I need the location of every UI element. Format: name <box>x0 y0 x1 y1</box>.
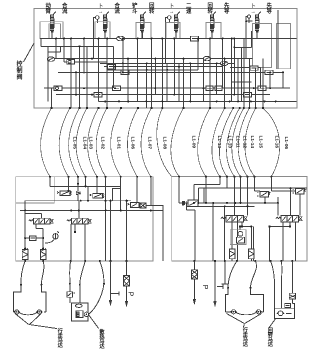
wire riser x222.5 y38.5 <box>222 39 224 89</box>
wire pump curve <box>45 240 54 244</box>
V1 inner box <box>49 24 61 39</box>
junction x194 y202.9 <box>193 202 195 204</box>
hose L1-01 <box>88 108 99 177</box>
svg-text:L1-03: L1-03 <box>87 137 93 150</box>
svg-text:L1-16: L1-16 <box>274 136 280 149</box>
junction x203.5 y88.2 <box>203 87 205 89</box>
directional valve DV1 <box>29 218 54 224</box>
wire jog y187.8 <box>204 187 227 189</box>
svg-text:导: 导 <box>224 7 230 15</box>
hose to right block corner <box>157 108 172 177</box>
wire riser x120.7 <box>120 177 122 211</box>
junction x206 y176.6 <box>205 176 207 178</box>
wire riser x241.3 y47.3 <box>240 47 242 101</box>
junction x84 y38.5 <box>83 38 85 40</box>
orifice E15 <box>94 92 102 96</box>
dots on right block top edge <box>178 176 272 178</box>
junction x271.4 y176.6 <box>270 176 272 178</box>
hose to fan circle C <box>100 261 104 284</box>
wire riser x206 <box>205 177 207 203</box>
svg-text:L1-11: L1-11 <box>234 136 240 149</box>
wire jog y184.4 <box>194 183 220 185</box>
bus y200.7 <box>25 200 131 202</box>
junction x162.4 y108 <box>161 107 163 109</box>
junction x290.6 y188.2 <box>290 187 292 189</box>
junction x275.6 y101.4 <box>275 100 277 102</box>
hose to swing motor A <box>271 261 275 308</box>
junction x126.5 y261 <box>125 260 127 262</box>
junction x92 y94.6 <box>91 94 93 96</box>
junction x84 y88.2 <box>83 87 85 89</box>
junction x107 y108 <box>106 107 108 109</box>
hose L1-14 <box>232 108 244 177</box>
svg-text:导: 导 <box>267 7 273 15</box>
shuttle check PB <box>76 192 80 195</box>
bus y210.4 <box>20 209 163 211</box>
junction x85.2 y261 <box>84 260 86 262</box>
leader to swing motor label <box>269 319 275 328</box>
bus y101.4 <box>99 100 297 102</box>
junction x247.5 y206.3 <box>246 205 248 207</box>
wire riser x179 y63.4 <box>178 63 180 101</box>
label 控制阀 <box>17 60 23 81</box>
hose to left travel motor A <box>21 261 25 285</box>
junction x260.8 y311.8 <box>260 311 262 313</box>
wire riser x231.7 y38.5 <box>231 39 233 102</box>
junction x25.1 y238.1 <box>24 237 26 239</box>
wire riser x255.7 y67.4 <box>255 67 257 108</box>
bus y66.6 <box>104 66 223 68</box>
wire riser x220 <box>219 177 221 185</box>
bus y58.6 <box>48 58 253 60</box>
wire riser x151.5 y38.5 <box>151 39 153 109</box>
right inner box <box>277 24 291 69</box>
junction x263 y108 <box>262 107 264 109</box>
cartridge check CC1 <box>22 249 28 262</box>
junction x110.5 y261 <box>109 260 111 262</box>
junction x128 y58.6 <box>127 58 129 60</box>
junction x146.6 y63.4 <box>146 62 148 64</box>
hose junction dots <box>20 284 42 286</box>
junction x247.5 y176.6 <box>246 176 248 178</box>
junction x68.5 y176.8 <box>67 176 69 178</box>
junction x233.6 y311.8 <box>232 310 236 314</box>
V5 sub-box <box>206 23 221 39</box>
vent circle for V6 <box>247 15 250 18</box>
left travel motor <box>14 285 46 325</box>
swing motor <box>275 308 295 318</box>
junction x107.1 y38.5 <box>106 38 108 40</box>
V3 sub-box <box>136 23 151 39</box>
junction x194.4 y261 <box>193 260 195 262</box>
junction x243.8 y108 <box>243 107 245 109</box>
leader to fan motor label <box>89 315 99 329</box>
label 回转马达 <box>268 326 274 348</box>
junction x190.4 y101.4 <box>189 100 191 102</box>
wire riser x251.3 y31 <box>250 31 252 47</box>
junction x249.4 y108 <box>248 107 250 109</box>
wire riser x213.2 <box>212 203 214 261</box>
relief valve E6 <box>220 61 228 65</box>
junction x155.3 y58.6 <box>154 58 156 60</box>
junction x222.5 y38.5 <box>222 38 224 40</box>
junction x240 y226.5 <box>239 225 241 227</box>
right block internal wires <box>179 177 307 261</box>
wire riser x278.2 y10 <box>277 10 279 69</box>
directional valve DV3 <box>221 216 248 222</box>
junction x264.5 y101.4 <box>263 100 265 102</box>
junction x39.4 y311.9 <box>39 311 40 312</box>
wire riser x43.2 <box>42 229 44 250</box>
bus y72.4 <box>58 71 283 73</box>
orifice E13b <box>215 86 222 90</box>
svg-text:L1-02: L1-02 <box>100 137 106 150</box>
wire riser x183.5 y58.6 <box>183 59 185 108</box>
junction x224.7 y58.6 <box>224 58 226 60</box>
bus y94.6 <box>56 94 270 96</box>
junction x78.8 y210.4 <box>78 209 80 211</box>
solenoid valve V2 <box>103 11 109 38</box>
junction x255.4 y261 <box>254 260 256 262</box>
dots on left block bottom edge <box>24 260 127 262</box>
wire riser x128 y58.6 <box>127 59 129 102</box>
wire DV4 drops <box>282 222 284 261</box>
junction x105.3 y101.4 <box>104 100 106 102</box>
junction x97 y176.8 <box>96 176 98 178</box>
fan circle hose <box>89 284 104 315</box>
junction x71.2 y210.4 <box>70 209 72 211</box>
junction x41.4 y311.9 <box>40 311 42 313</box>
wire DV3 drops <box>231 222 233 249</box>
svg-text:转: 转 <box>149 7 155 15</box>
hose L1-11 <box>219 108 233 177</box>
wire riser x194.9 <box>194 210 196 261</box>
left block junction dots <box>24 183 152 250</box>
brake valve cartridge <box>289 293 295 308</box>
svg-text:控: 控 <box>17 60 23 68</box>
hose to right travel motor A <box>228 261 237 288</box>
hose to swing motor B <box>280 261 282 308</box>
left hose labels <box>71 137 167 150</box>
svg-text:速: 速 <box>186 7 192 15</box>
wire riser x227 <box>226 177 228 188</box>
wire riser x126.5 <box>126 201 128 261</box>
orifice E9 <box>121 70 129 74</box>
junction x277.9 y202.9 <box>277 202 279 204</box>
wire riser x174.3 y38.5 <box>173 39 175 95</box>
wire riser x271.4 <box>270 177 272 192</box>
wire jog DV1 <box>25 213 42 215</box>
svg-text:L1-01: L1-01 <box>116 137 122 150</box>
junction x190.4 y63.4 <box>189 62 191 64</box>
svg-text:L1-12: L1-12 <box>242 136 248 149</box>
junction x78 y183.6 <box>77 183 79 185</box>
junction x265 y202.9 <box>264 202 266 204</box>
wire riser x36 DV1 out <box>35 224 37 228</box>
junction x120.7 y176.8 <box>120 176 122 178</box>
junction x198 y38.5 <box>197 38 199 40</box>
relief RV1 drop <box>264 197 266 203</box>
orifice E8 <box>250 66 258 70</box>
junction x43.2 y248.5 <box>42 247 44 249</box>
svg-text:L1-10: L1-10 <box>227 136 233 149</box>
junction x18.8 y311.9 <box>18 311 20 313</box>
junction x258.7 y311.8 <box>258 311 259 312</box>
svg-text:达: 达 <box>243 340 249 348</box>
junction x25.1 y210.4 <box>24 209 26 211</box>
junction x110.5 y200.7 <box>109 200 111 202</box>
wire riser x179.1 <box>178 177 180 203</box>
junction x126.9 y200.7 <box>126 200 128 202</box>
junction x68.5 y190.8 <box>67 190 69 192</box>
svg-text:L1-04: L1-04 <box>82 137 88 150</box>
check valve PD <box>128 203 139 208</box>
hose L1-16 <box>245 108 256 177</box>
bus y202.9 <box>179 202 278 204</box>
wire riser x150.8 <box>150 177 152 205</box>
junction x254.5 y176.6 <box>253 176 255 178</box>
junction x269.5 y226.5 <box>268 225 270 227</box>
hose to brake valve <box>291 261 293 293</box>
wire riser x71 y38.5 <box>70 39 72 109</box>
wire orifice link y238.1 <box>25 237 29 239</box>
junction x179 y66.6 <box>178 66 180 68</box>
junction x227 y176.6 <box>226 176 228 178</box>
junction x76 y72.4 <box>75 71 77 73</box>
right block junction dots <box>193 187 292 227</box>
junction x85.5 y186.3 <box>84 185 86 187</box>
check box PE <box>140 203 146 208</box>
junction x235.3 y202.9 <box>234 202 236 204</box>
hose L1-03 <box>69 108 80 177</box>
junction x210 y108 <box>209 107 211 109</box>
wire riser x98.5 y38.5 <box>98 39 100 102</box>
V4 sub-box <box>166 23 180 39</box>
wire riser x85.5 <box>85 177 87 187</box>
wire riser x84 y38.5 <box>83 39 85 74</box>
left block box <box>16 177 153 261</box>
svg-text:制: 制 <box>17 67 23 75</box>
junction x105.6 y176.8 <box>105 176 107 178</box>
orifice E13 <box>206 86 213 90</box>
wire riser x167.2 y63.4 <box>166 63 168 101</box>
check valve E5 <box>67 60 75 64</box>
junction x174.3 y94.6 <box>173 94 175 96</box>
right travel motor port dots <box>231 311 262 313</box>
wire riser x48 y46.4 <box>47 46 49 101</box>
wire riser x113.5 y46.4 <box>113 46 115 88</box>
junction x251.3 y226.5 <box>250 225 252 227</box>
wire riser x198.3 <box>197 188 199 203</box>
junction x70 y108 <box>69 107 71 109</box>
wire riser x216.6 y63.4 <box>216 63 218 94</box>
junction x234.3 y47.3 <box>233 46 235 48</box>
wire DV2 outs <box>70 224 72 261</box>
wire jog x194.9 <box>186 209 195 211</box>
solenoid valve V5 <box>210 11 216 38</box>
bus y69.8 <box>107 69 198 71</box>
junction x120.7 y210.4 <box>120 209 122 211</box>
svg-text:转: 转 <box>208 7 214 15</box>
junction x162.4 y101.4 <box>161 100 163 102</box>
junction x270.1 y88.2 <box>269 87 271 89</box>
junction x16.8 y311.9 <box>15 310 19 314</box>
wire riser x203.5 y58.6 <box>203 59 205 102</box>
wire riser x270.1 y72.4 <box>269 72 271 88</box>
hose L1-02 <box>76 108 87 177</box>
solenoid valve V6 <box>255 11 261 38</box>
junction x79.5 y108 <box>78 107 80 109</box>
junction x16.8 y311.9 <box>16 311 17 312</box>
wire riser x142.7 y31 <box>142 31 144 39</box>
svg-text:流: 流 <box>115 7 121 15</box>
orifice box OB <box>30 236 37 241</box>
V6 tall sub-box <box>253 24 272 68</box>
leader to 控制阀 <box>24 43 35 62</box>
wire riser x247.5 <box>247 177 249 216</box>
junction x119 y101.4 <box>118 100 120 102</box>
junction x50 y176.8 <box>49 176 51 178</box>
wire riser x186.4 <box>185 203 187 210</box>
wire riser x68.5 <box>68 177 70 191</box>
travel motor port dots <box>14 311 43 313</box>
junction x167.2 y69.8 <box>166 69 168 71</box>
junction x126.5 y200.7 <box>125 200 127 202</box>
right hose labels <box>191 136 289 150</box>
junction dots top block <box>55 20 284 102</box>
junction x174.3 y38.5 <box>173 38 175 40</box>
svg-text:L1-14: L1-14 <box>249 136 255 149</box>
hose L1-07 <box>111 108 121 177</box>
hose to fan motor B <box>80 261 85 285</box>
junction x105.6 y200.7 <box>105 200 107 202</box>
svg-text:L1-15: L1-15 <box>257 136 263 149</box>
left block inner notch box <box>16 177 55 203</box>
label 行走马达 right <box>242 326 249 348</box>
junction x99.8 y261 <box>99 260 101 262</box>
wire riser x260.4 y67.3 <box>259 67 261 88</box>
vent circle for V4 <box>168 16 172 20</box>
junction x122.9 y38.5 <box>122 38 124 40</box>
junction x115 y66.6 <box>114 66 116 68</box>
cartridge check CC2 <box>40 249 46 262</box>
right travel motor <box>225 288 263 324</box>
svg-text:→: → <box>169 9 174 15</box>
junction x162.4 y38.5 <box>161 38 163 40</box>
junction x233.6 y311.8 <box>233 311 234 312</box>
junction x183.5 y58.6 <box>183 58 185 60</box>
hose to right travel motor B <box>251 261 257 288</box>
wire y46.4 left <box>41 45 114 47</box>
left block internal wires <box>20 177 163 261</box>
junction x87 y108 <box>86 107 88 109</box>
svg-text:达: 达 <box>268 340 274 348</box>
junction x210 y38.5 <box>209 38 211 40</box>
junction x137.5 y38.5 <box>137 38 139 40</box>
junction x258.7 y311.8 <box>257 310 261 314</box>
junction x43.2 y238.1 <box>42 237 44 239</box>
wire riser x40.9 y38.5 <box>40 39 42 47</box>
dots on left block top edge <box>49 176 152 178</box>
junction x122.9 y72.4 <box>122 71 124 73</box>
svg-text:流: 流 <box>62 7 68 15</box>
junction x216.6 y63.4 <box>216 62 218 64</box>
junction x231.7 y38.5 <box>231 38 233 40</box>
solenoid valve V1 <box>50 11 56 38</box>
junction x234.3 y38.5 <box>233 38 235 40</box>
gauge valve feed <box>239 227 241 230</box>
svg-text:L1-13: L1-13 <box>216 136 222 149</box>
junction x238.1 y101.4 <box>237 100 239 102</box>
wire jog to RV2 <box>271 190 295 192</box>
wire y61.8 <box>64 61 107 63</box>
wire riser x240.5 <box>240 177 242 203</box>
hose L1-17 reverse arc <box>263 108 280 177</box>
wire riser x76 y58.6 <box>75 72 77 94</box>
solenoid valve V4 <box>174 11 180 38</box>
svg-text:L1-09: L1-09 <box>191 136 197 149</box>
junction x231.5 y311.8 <box>231 311 233 313</box>
wire riser x234.5 <box>234 177 236 216</box>
junction x236.9 y261 <box>236 260 238 262</box>
cartridge check CC4 <box>249 249 255 261</box>
wire riser x290.6 <box>290 188 292 215</box>
wire jog to RV1 <box>255 190 261 192</box>
wire riser x249.4 y58.6 <box>248 59 250 108</box>
junction x220 y176.6 <box>219 176 221 178</box>
gear pump circle <box>53 232 59 240</box>
leader to travel motor label <box>29 325 57 329</box>
wire riser x190.4 y63.4 <box>189 63 191 101</box>
pilot valve PA <box>57 191 71 196</box>
hose L1-13 <box>198 108 210 177</box>
dots on top block bottom edge <box>50 107 264 109</box>
relief RV2 drop <box>299 194 301 216</box>
junction x234.5 y176.6 <box>233 176 235 178</box>
junction x43.2 y261 <box>42 260 44 262</box>
reducing valve RA <box>182 200 198 207</box>
wire riser x51.5 y88.2 <box>51 88 53 108</box>
junction x270.5 y261 <box>269 260 271 262</box>
svg-text:→: → <box>251 9 256 15</box>
wire riser x277.9 <box>277 197 279 216</box>
wire y47.3 right <box>234 46 251 48</box>
gauge valve box <box>230 230 246 245</box>
junction x75 y232 <box>74 231 76 233</box>
svg-text:斗: 斗 <box>132 8 138 15</box>
junction x235.7 y311.8 <box>235 311 237 313</box>
relief valve RV1 <box>257 191 270 197</box>
V2 sub-box <box>95 22 110 39</box>
wire risers <box>41 10 283 108</box>
directional valve DV2 <box>67 218 92 224</box>
bus y38.5 <box>40 38 297 40</box>
junction x80.7 y200.7 <box>80 200 82 202</box>
hose L1-05 <box>41 108 52 177</box>
junction x87.9 y200.7 <box>87 200 89 202</box>
wire y67.3 right <box>230 66 260 68</box>
junction x227 y202.9 <box>226 202 228 204</box>
junction x25.1 y248.5 <box>24 247 26 249</box>
hose L1-04 <box>59 108 70 177</box>
junction x122.9 y63.4 <box>122 62 124 64</box>
wire riser x60.6 y46.4 <box>60 46 62 52</box>
vent circle for V2 <box>96 16 100 20</box>
svg-text:L1-06: L1-06 <box>130 137 136 150</box>
junction x213.2 y202.9 <box>212 202 214 204</box>
junction x146.4 y101.4 <box>145 100 147 102</box>
hose to fan motor A <box>70 261 71 284</box>
